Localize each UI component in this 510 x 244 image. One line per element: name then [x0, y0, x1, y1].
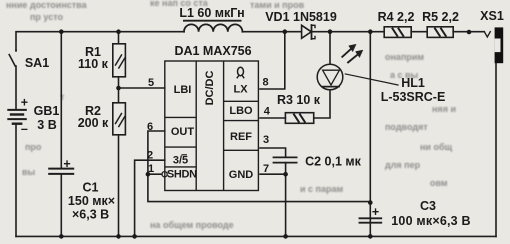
junction node top rail C1	[59, 29, 64, 34]
wire pin2 3/5 to bottom rail	[135, 160, 165, 236]
svg-text:и с парам: и с парам	[300, 184, 343, 194]
IC DA1 MAX756 body	[165, 61, 259, 191]
svg-text:DC/DC: DC/DC	[204, 71, 216, 106]
LED arrow 2	[348, 50, 363, 62]
LED HL1 triangle	[323, 70, 340, 85]
junction node OUT output node	[368, 200, 373, 205]
wire R3 to pin4 LBO	[260, 117, 285, 119]
wire VD1 to R4	[312, 31, 385, 33]
svg-text:R5 2,2: R5 2,2	[422, 10, 459, 24]
battery GB1	[8, 110, 26, 124]
svg-text:7: 7	[263, 163, 269, 175]
svg-text:C3: C3	[420, 199, 436, 213]
wire pin7 GND	[260, 173, 286, 175]
svg-text:подводят: подводят	[385, 122, 428, 132]
wire LED to R3	[314, 90, 330, 118]
junction node XS1	[467, 30, 472, 35]
svg-text:VD1 1N5819: VD1 1N5819	[265, 10, 337, 24]
svg-text:SA1: SA1	[25, 56, 49, 70]
junction node bottom R2	[116, 234, 121, 239]
svg-text:ни общ: ни общ	[420, 142, 453, 152]
resistor R5	[427, 27, 453, 38]
capacitor C3	[360, 218, 382, 222]
LED HL1 cathode bar	[323, 86, 339, 88]
svg-text:C2 0,1 мк: C2 0,1 мк	[305, 155, 362, 169]
LED arrow 1	[342, 44, 356, 57]
wire pin1 SHDN to OUT wire	[148, 173, 162, 175]
wire HL1 branch from top rail	[329, 32, 331, 64]
svg-text:150 мк×: 150 мк×	[68, 194, 115, 208]
svg-text:C1: C1	[83, 181, 99, 195]
junction node bottom pin2	[132, 234, 137, 239]
svg-text:2: 2	[147, 150, 153, 162]
svg-text:OUT: OUT	[171, 126, 195, 138]
svg-text:нние достоинства: нние достоинства	[6, 0, 88, 10]
svg-text:R3 10 к: R3 10 к	[277, 93, 321, 107]
resistor R1	[113, 44, 126, 77]
wire battery minus to bottom rail	[15, 124, 17, 237]
svg-text:GB1: GB1	[34, 104, 60, 118]
junction node HL1 rail	[328, 29, 333, 34]
svg-text:пр усто: пр усто	[30, 12, 64, 22]
callout line HL1	[345, 74, 398, 85]
svg-text:4: 4	[264, 106, 271, 118]
connector XS1 plug body	[495, 27, 504, 63]
inductor L1	[184, 24, 242, 31]
junction node SHDN OUT	[146, 172, 151, 177]
resistor R4	[384, 27, 411, 38]
wire R1 to R2	[118, 77, 120, 103]
junction node bottom C3	[368, 234, 373, 239]
wire R2 to bottom rail	[118, 135, 120, 237]
svg-text:3: 3	[263, 134, 269, 146]
wire pin8 LX to top rail	[260, 32, 285, 89]
svg-text:6: 6	[147, 121, 153, 133]
svg-text:3/5: 3/5	[173, 155, 188, 167]
capacitor C2	[274, 157, 297, 162]
capacitor C1	[49, 169, 73, 174]
diode VD1 1N5819	[302, 25, 315, 39]
svg-text:×6,3 В: ×6,3 В	[72, 207, 109, 221]
wire GND down to bottom rail	[285, 174, 287, 236]
junction node bottom GND	[283, 234, 288, 239]
svg-text:DA1 MAX756: DA1 MAX756	[174, 44, 251, 58]
connector XS1 contact	[484, 32, 490, 37]
svg-text:LX: LX	[233, 84, 248, 96]
svg-text:+: +	[21, 96, 28, 110]
svg-text:LBO: LBO	[229, 105, 253, 117]
svg-text:овм: овм	[430, 178, 448, 188]
junction node LX rail	[283, 29, 288, 34]
svg-text:8: 8	[262, 77, 268, 89]
svg-text:–: –	[21, 122, 28, 136]
coil icon in LX cell	[237, 67, 244, 78]
wire pin3 REF to C2	[260, 148, 286, 157]
wire output node vertical	[369, 32, 371, 237]
svg-text:+: +	[372, 205, 379, 219]
label cell 3/5	[173, 155, 188, 167]
LED HL1 circle	[317, 64, 343, 90]
junction node top rail R1	[116, 29, 121, 34]
svg-text:для пер: для пер	[385, 160, 421, 170]
svg-text:вы: вы	[22, 167, 36, 177]
svg-text:XS1: XS1	[480, 9, 504, 23]
pin1 SHDN inversion circle	[162, 172, 167, 177]
svg-text:GND: GND	[229, 169, 254, 181]
svg-text:110 к: 110 к	[78, 57, 109, 71]
wire R1 top connection	[118, 32, 120, 44]
svg-text:200 к: 200 к	[78, 116, 109, 130]
svg-text:на общем проводе: на общем проводе	[150, 220, 234, 230]
junction node bottom C1	[59, 234, 64, 239]
connector XS1 lower contact wire	[495, 63, 497, 236]
svg-text:1: 1	[148, 163, 154, 175]
resistor R3	[285, 113, 313, 124]
wire C2 to pin7 junction	[285, 163, 287, 175]
svg-text:100 мк×6,3 В: 100 мк×6,3 В	[391, 214, 470, 228]
svg-text:HL1: HL1	[401, 76, 425, 90]
svg-text:5: 5	[148, 77, 154, 89]
svg-text:3 В: 3 В	[37, 118, 56, 132]
svg-text:REF: REF	[230, 131, 252, 143]
svg-text:SHDN: SHDN	[167, 169, 197, 181]
junction node output rail	[368, 29, 373, 34]
wire left rail	[16, 32, 184, 51]
junction node C2 pin7	[283, 172, 288, 177]
svg-text:R4 2,2: R4 2,2	[378, 10, 415, 24]
svg-text:L-53SRC-E: L-53SRC-E	[381, 90, 446, 104]
svg-text:+: +	[63, 157, 70, 171]
svg-text:LBI: LBI	[174, 84, 192, 96]
svg-text:няя и: няя и	[432, 104, 456, 114]
junction node R1 R2 pin5	[116, 86, 121, 91]
wire bottom rail	[16, 235, 496, 237]
svg-text:L1 60 мкГн: L1 60 мкГн	[179, 6, 244, 20]
resistor R2	[113, 103, 126, 135]
wire C1 branch vertical top	[60, 32, 62, 168]
svg-text:тами и пров: тами и пров	[250, 0, 305, 10]
wire R4 to R5	[411, 31, 427, 33]
wire pin6 OUT down and right to output node	[148, 131, 370, 202]
wire C1 to bottom rail	[60, 175, 62, 237]
svg-text:про: про	[25, 142, 42, 152]
wire R5 to XS1 contact	[453, 31, 484, 33]
label L1 value	[179, 6, 244, 21]
wire L1 to VD1	[242, 31, 301, 33]
switch SA1	[9, 50, 16, 109]
svg-text:онаприм: онаприм	[385, 52, 424, 62]
wire pin5 LBI from R1R2 junction	[119, 87, 165, 89]
